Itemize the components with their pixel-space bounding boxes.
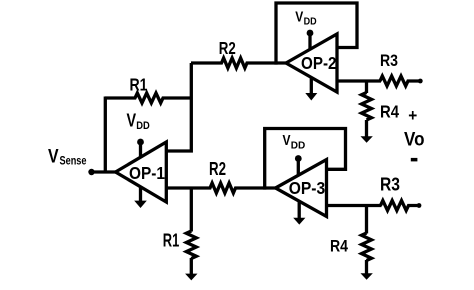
svg-text:R4: R4 [380,102,399,122]
resistor R2 (top) [191,58,287,68]
wire OP-3 output to R3 [327,204,382,207]
svg-text:V: V [295,9,303,26]
wire OP-2 feedback loop rectangle [276,3,357,65]
svg-text:OP-3: OP-3 [289,178,326,198]
svg-text:DD: DD [136,120,150,132]
resistor R4 (bottom) [362,206,372,275]
resistor R2 (bottom) [166,183,276,193]
label VDD of OP-1 [127,110,150,132]
resistor R1 (bottom) with lead from OP-1 output node [186,188,196,275]
wire OP-3 feedback loop rectangle [265,129,346,190]
svg-text:R3: R3 [380,51,398,70]
label minus sign of Vo [411,158,418,162]
svg-text:R1: R1 [163,229,180,250]
power VDD pin dot of OP-1 [137,139,144,146]
op-amp U2 OP-2 [286,34,337,92]
svg-text:DD: DD [304,16,317,28]
ground of OP-3 [293,202,305,225]
op-amp U1 OP-1 [116,142,167,202]
resistor R3 (bottom) [381,201,418,211]
op-amp U3 OP-3 [276,160,327,217]
ground below R4 (bottom) [361,273,373,280]
svg-text:R1: R1 [130,74,148,94]
label VDD of OP-3 [283,132,306,152]
node output terminal dot (bottom) [417,203,422,208]
svg-text:R2: R2 [219,38,236,58]
wire left vertical from R1 top to V_Sense line [104,97,107,174]
power VDD pin dot of OP-2 [307,30,314,37]
svg-text:+: + [408,106,417,125]
node V_Sense terminal dot [88,169,94,175]
svg-text:OP-1: OP-1 [129,163,165,183]
svg-text:R2: R2 [209,159,226,179]
svg-text:V: V [283,132,291,149]
power VDD pin dot of OP-3 [295,155,302,162]
ground below R4 (top) [361,136,373,143]
node output terminal dot (top) [418,79,423,84]
label V_Sense [48,146,87,167]
svg-text:DD: DD [291,140,306,152]
svg-text:OP-2: OP-2 [301,53,337,73]
resistor R4 (top) [362,81,372,137]
wire V_Sense input to OP-1 apex [92,170,117,173]
wire VDD stub of OP-3 [297,159,300,176]
svg-text:R3: R3 [380,175,400,195]
wire VDD stub of OP-1 [139,142,142,158]
resistor R1 (top feedback) [105,93,191,103]
wire OP-1 feedback pin to vertical rail up to R2 [166,63,191,151]
svg-text:Vo: Vo [404,129,425,150]
resistor R3 (top) [380,76,419,86]
svg-text:V: V [127,110,137,130]
ground of OP-1 [134,186,147,208]
wire VDD stub of OP-2 [308,33,311,50]
wire OP-2 output to R3 [337,79,381,82]
svg-text:Sense: Sense [60,153,87,167]
ground of OP-2 [305,77,317,101]
svg-text:R4: R4 [330,237,348,256]
label VDD of OP-2 [295,9,317,28]
ground below R1 (bottom) [185,274,197,281]
svg-text:V: V [48,146,59,167]
